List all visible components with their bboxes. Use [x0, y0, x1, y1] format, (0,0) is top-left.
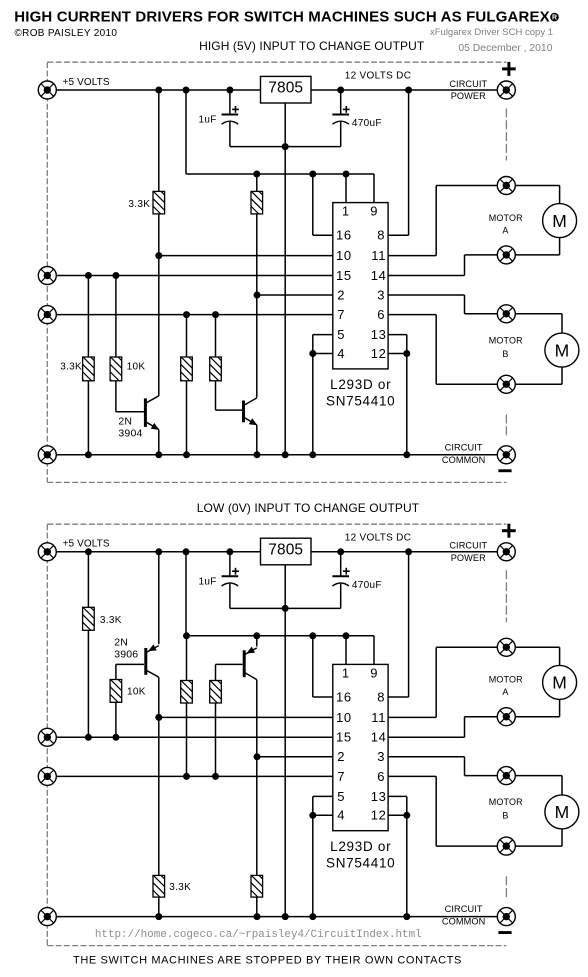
svg-text:6: 6: [377, 769, 385, 784]
svg-text:A: A: [502, 687, 508, 697]
svg-text:13: 13: [371, 327, 387, 342]
svg-text:CIRCUIT: CIRCUIT: [445, 442, 483, 452]
svg-text:M: M: [552, 211, 567, 231]
svg-text:05 December , 2010: 05 December , 2010: [458, 43, 552, 54]
svg-text:MOTOR: MOTOR: [489, 213, 523, 223]
svg-text:13: 13: [371, 789, 387, 804]
svg-text:8: 8: [377, 228, 385, 243]
svg-text:CIRCUIT: CIRCUIT: [449, 79, 487, 89]
svg-text:+5 VOLTS: +5 VOLTS: [63, 77, 110, 88]
svg-text:3.3K: 3.3K: [100, 615, 122, 626]
svg-text:470uF: 470uF: [352, 580, 382, 591]
svg-text:4: 4: [337, 346, 345, 361]
svg-text:M: M: [552, 673, 567, 693]
svg-text:5: 5: [337, 327, 345, 342]
svg-text:xFulgarex Driver SCH copy 1: xFulgarex Driver SCH copy 1: [430, 27, 553, 38]
svg-text:14: 14: [371, 730, 387, 745]
svg-text:SN754410: SN754410: [326, 855, 395, 870]
svg-text:9: 9: [370, 665, 378, 680]
svg-text:10: 10: [336, 248, 352, 263]
svg-text:10: 10: [336, 710, 352, 725]
svg-text:3: 3: [377, 749, 385, 764]
svg-text:3.3K: 3.3K: [128, 199, 150, 210]
svg-text:12 VOLTS DC: 12 VOLTS DC: [345, 71, 411, 82]
svg-text:©ROB PAISLEY 2010: ©ROB PAISLEY 2010: [15, 28, 118, 39]
svg-text:12: 12: [371, 346, 387, 361]
svg-text:1: 1: [342, 665, 350, 680]
svg-text:1: 1: [342, 204, 350, 219]
svg-text:5: 5: [337, 789, 345, 804]
svg-text:12 VOLTS DC: 12 VOLTS DC: [345, 532, 411, 543]
svg-text:3906: 3906: [114, 649, 138, 661]
svg-text:7: 7: [337, 307, 345, 322]
svg-text:M: M: [555, 802, 570, 822]
svg-text:11: 11: [371, 710, 386, 725]
svg-text:L293D or: L293D or: [330, 377, 391, 392]
svg-text:THE SWITCH MACHINES ARE STOPPE: THE SWITCH MACHINES ARE STOPPED BY THEIR…: [73, 955, 462, 967]
svg-text:MOTOR: MOTOR: [489, 335, 523, 345]
svg-text:6: 6: [377, 307, 385, 322]
svg-text:L293D or: L293D or: [330, 839, 391, 854]
svg-text:7: 7: [337, 769, 345, 784]
svg-text:3.3K: 3.3K: [60, 362, 82, 373]
svg-text:11: 11: [371, 248, 386, 263]
svg-text:10K: 10K: [127, 687, 146, 698]
svg-text:15: 15: [336, 268, 352, 283]
svg-text:COMMON: COMMON: [442, 455, 485, 465]
svg-text:16: 16: [336, 228, 352, 243]
svg-text:15: 15: [336, 730, 352, 745]
svg-text:SN754410: SN754410: [326, 394, 395, 409]
svg-text:MOTOR: MOTOR: [489, 675, 523, 685]
svg-text:B: B: [502, 349, 508, 359]
svg-text:470uF: 470uF: [352, 118, 382, 129]
svg-text:14: 14: [371, 268, 387, 283]
svg-text:10K: 10K: [127, 362, 146, 373]
svg-text:8: 8: [377, 689, 385, 704]
svg-text:+5 VOLTS: +5 VOLTS: [63, 539, 110, 550]
svg-text:HIGH (5V) INPUT TO CHANGE OUTP: HIGH (5V) INPUT TO CHANGE OUTPUT: [199, 39, 425, 53]
svg-text:POWER: POWER: [451, 553, 486, 563]
svg-text:http://home.cogeco.ca/~rpaisle: http://home.cogeco.ca/~rpaisley4/Circuit…: [95, 929, 422, 941]
svg-text:1uF: 1uF: [199, 115, 217, 126]
svg-text:3.3K: 3.3K: [169, 882, 191, 893]
svg-text:16: 16: [336, 689, 352, 704]
svg-text:2: 2: [337, 749, 345, 764]
svg-text:HIGH CURRENT DRIVERS FOR SWITC: HIGH CURRENT DRIVERS FOR SWITCH MACHINES…: [14, 9, 550, 26]
svg-text:4: 4: [337, 808, 345, 823]
svg-text:2N: 2N: [114, 637, 128, 649]
svg-text:CIRCUIT: CIRCUIT: [445, 904, 483, 914]
svg-text:POWER: POWER: [451, 91, 486, 101]
svg-text:12: 12: [371, 808, 387, 823]
svg-text:9: 9: [370, 204, 378, 219]
svg-text:COMMON: COMMON: [442, 917, 485, 927]
svg-text:A: A: [502, 225, 508, 235]
svg-text:B: B: [502, 811, 508, 821]
svg-text:M: M: [555, 340, 570, 360]
svg-text:R: R: [552, 15, 557, 22]
svg-text:1uF: 1uF: [199, 576, 217, 587]
svg-text:7805: 7805: [268, 80, 303, 97]
svg-text:2: 2: [337, 287, 345, 302]
svg-text:3: 3: [377, 287, 385, 302]
svg-text:CIRCUIT: CIRCUIT: [449, 541, 487, 551]
svg-text:3904: 3904: [118, 428, 142, 440]
svg-text:7805: 7805: [268, 541, 303, 558]
svg-text:MOTOR: MOTOR: [489, 797, 523, 807]
svg-text:LOW (0V) INPUT TO CHANGE OUTPU: LOW (0V) INPUT TO CHANGE OUTPUT: [197, 501, 420, 515]
svg-text:2N: 2N: [118, 416, 132, 428]
